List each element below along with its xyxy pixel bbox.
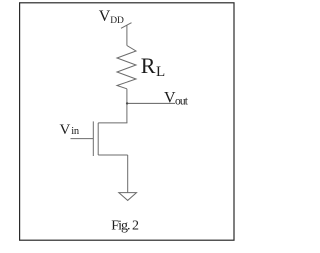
svg-text:DD: DD [110, 16, 124, 26]
wire gate lead [71, 138, 94, 140]
svg-text:in: in [71, 126, 80, 137]
label Vin [60, 122, 80, 138]
svg-text:Fig. 2: Fig. 2 [111, 219, 139, 234]
svg-text:L: L [156, 64, 165, 80]
transistor NMOS [93, 121, 127, 156]
label VDD [99, 8, 124, 26]
wire VDD to resistor [126, 25, 128, 45]
junction node [126, 102, 128, 104]
svg-text:out: out [175, 95, 189, 107]
svg-text:V: V [99, 8, 111, 25]
svg-text:V: V [60, 122, 71, 138]
wire source to ground [127, 155, 129, 193]
label Vout [164, 90, 189, 108]
wire Vout tap [127, 102, 175, 104]
svg-text:R: R [141, 53, 156, 78]
resistor RL [117, 46, 136, 89]
supply terminal tick [121, 23, 132, 29]
label RL [141, 53, 165, 80]
ground [119, 193, 137, 201]
wire resistor to drain [126, 89, 128, 123]
